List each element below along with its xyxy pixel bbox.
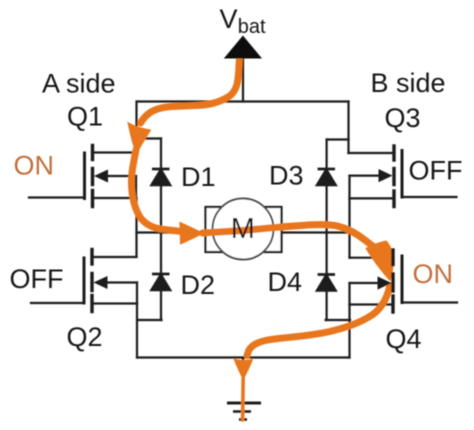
svg-text:ON: ON — [413, 259, 454, 289]
svg-text:D1: D1 — [181, 162, 216, 192]
svg-text:Q4: Q4 — [386, 324, 422, 354]
svg-text:Q2: Q2 — [67, 322, 103, 352]
svg-text:bat: bat — [238, 16, 266, 38]
svg-text:ON: ON — [14, 150, 55, 180]
svg-text:D3: D3 — [269, 161, 304, 191]
svg-text:OFF: OFF — [409, 156, 463, 186]
svg-text:D2: D2 — [181, 270, 216, 300]
svg-text:Q1: Q1 — [67, 102, 103, 132]
svg-text:A side: A side — [42, 69, 116, 99]
svg-text:V: V — [220, 4, 238, 34]
svg-text:OFF: OFF — [10, 264, 64, 294]
svg-text:B side: B side — [371, 68, 446, 98]
svg-text:M: M — [231, 213, 255, 245]
svg-text:D4: D4 — [268, 267, 303, 297]
svg-text:Q3: Q3 — [385, 103, 421, 133]
